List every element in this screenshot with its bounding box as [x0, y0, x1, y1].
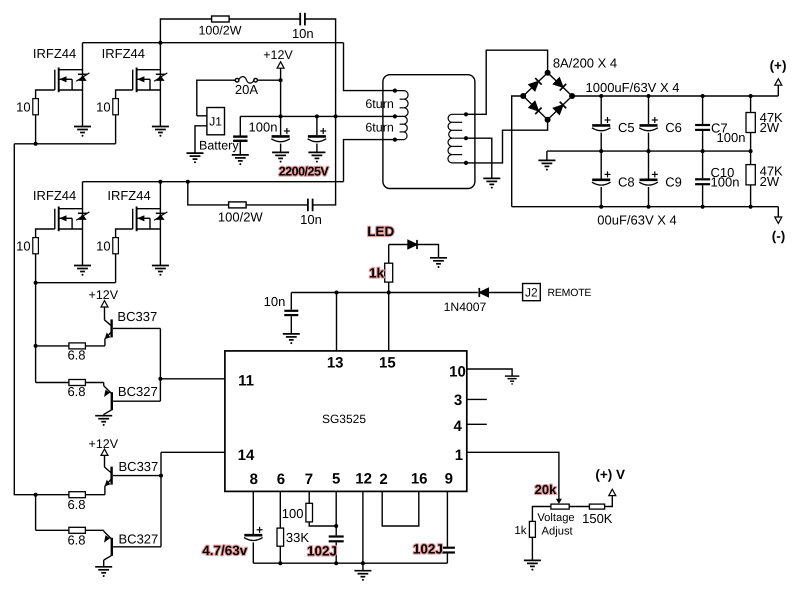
node mid rail C5 — [599, 149, 603, 153]
wire C8 top stem — [600, 151, 602, 178]
node gate rail row1 — [34, 142, 38, 146]
wire bottom ground rail — [253, 562, 447, 564]
wire secondary bottom to bridge AC2 — [466, 122, 548, 162]
resistor 6.8 a — [69, 343, 86, 349]
wire negative output rail — [512, 206, 779, 208]
node row2 gate rail — [34, 281, 38, 285]
svg-text:LED: LED — [367, 224, 394, 239]
wire R1 bottom to gate rail — [35, 115, 37, 144]
wire pin12 stem to ground — [362, 491, 364, 570]
capacitor 102J no1 — [329, 537, 344, 542]
wire pair1 base bus — [159, 328, 161, 401]
wire row2 gate rail down to pair1 drive — [35, 283, 37, 346]
resistor 1k LED — [385, 263, 393, 282]
wire 102J no1 bottom stem — [335, 542, 337, 563]
ground LED — [430, 258, 447, 268]
node mid rail C7 — [701, 149, 705, 153]
svg-text:7: 7 — [305, 471, 313, 488]
svg-text:(+): (+) — [770, 58, 787, 73]
resistor 100/2W lower — [229, 202, 247, 208]
wire C5 bottom stem — [600, 133, 602, 152]
svg-text:33K: 33K — [286, 530, 309, 545]
wire mosfet Q1 drain-source vertical — [82, 43, 84, 127]
capacitor C elco 2200/25V no1 — [271, 128, 290, 142]
wire Q3 gate — [36, 229, 55, 238]
diode bridge D2 top-right — [553, 78, 566, 91]
capacitor C7 100n — [695, 125, 710, 130]
wire 150K to plus V arrow — [605, 496, 613, 507]
capacitor 4.7/63v elco — [244, 527, 263, 541]
svg-text:8: 8 — [250, 471, 258, 488]
wire 4.7 cap bottom stem — [252, 542, 254, 563]
node Vcc rail pin15 — [387, 291, 391, 295]
node Vcc rail pin13 — [335, 291, 339, 295]
node row1 rail junction — [158, 41, 162, 45]
wire 1k top stem — [388, 245, 390, 264]
node bottom rail pin12 — [361, 561, 365, 565]
wire pin15 riser — [388, 293, 390, 351]
wire secondary center tap to ground — [466, 138, 492, 178]
power output minus arrow — [775, 217, 782, 223]
resistor R4 10 gate Q4 — [113, 238, 119, 254]
svg-text:1: 1 — [455, 447, 463, 464]
svg-text:15: 15 — [379, 354, 396, 371]
svg-text:10: 10 — [16, 99, 30, 114]
wire rail to transformer bottom tap — [344, 140, 395, 182]
wire pair2 emitter tie — [35, 495, 37, 531]
wire LED anode horizontal — [389, 244, 408, 246]
ground under Q3 — [74, 266, 91, 276]
wire R4 bottom to row2 gate rail — [115, 254, 117, 283]
wire 100n cap stem — [239, 116, 241, 135]
wire fuse left segment — [197, 80, 236, 116]
svg-text:4.7/63v: 4.7/63v — [202, 543, 248, 558]
svg-text:C6: C6 — [665, 120, 682, 135]
svg-text:20k: 20k — [535, 482, 557, 497]
svg-text:(-): (-) — [772, 229, 786, 244]
svg-text:102J: 102J — [413, 542, 443, 557]
wire bridge diamond edges — [523, 73, 572, 120]
ground under elco2 — [308, 152, 325, 162]
transistor Q4 IRFZ44 row2 right — [133, 207, 168, 232]
svg-text:100/2W: 100/2W — [198, 23, 241, 37]
ground under Q4 — [152, 266, 169, 276]
op-amp U1 SG3525 box — [225, 351, 467, 492]
svg-text:+12V: +12V — [263, 48, 293, 62]
wire fuse right segment — [257, 79, 280, 81]
wire 102J no2 bottom stem — [446, 554, 448, 564]
capacitor 102J no2 — [440, 548, 455, 553]
svg-text:2W: 2W — [760, 120, 780, 135]
wire mosfet Q2 drain-source vertical — [159, 43, 161, 127]
wire C10 top stem — [702, 151, 704, 178]
wire C10 bottom stem — [702, 185, 704, 206]
node bridge right — [569, 93, 575, 99]
node top rail C5 — [599, 94, 603, 98]
node drive pair1 — [34, 344, 38, 348]
wire positive arrow stem — [777, 85, 779, 96]
ground voltage adjust — [524, 560, 541, 570]
svg-text:J2: J2 — [525, 286, 538, 300]
wire row1 gate rail — [14, 143, 115, 145]
svg-text:100n: 100n — [711, 174, 740, 189]
node bottom rail C9 — [647, 205, 651, 209]
svg-text:IRFZ44: IRFZ44 — [102, 46, 145, 61]
svg-text:2W: 2W — [760, 174, 780, 189]
svg-text:10: 10 — [449, 364, 466, 381]
resistor R1 10 gate Q1 — [33, 99, 39, 115]
svg-text:10n: 10n — [300, 212, 322, 227]
wire secondary top to bridge AC1 — [466, 50, 548, 114]
node secondary center tap — [464, 136, 468, 140]
wire C6 top stem — [648, 96, 650, 124]
wire C8 bottom stem — [600, 187, 602, 207]
wire 6.8d right — [85, 529, 103, 531]
resistor 47K 2W upper — [746, 113, 755, 133]
wire 100 bottom to pin5 line — [309, 522, 336, 526]
node bottom rail 102J — [334, 561, 338, 565]
svg-text:10: 10 — [96, 238, 110, 253]
svg-text:5: 5 — [332, 471, 340, 488]
wire row1 drain rail — [83, 42, 344, 44]
capacitor 10n Vcc — [284, 311, 298, 315]
svg-text:(+) V: (+) V — [595, 467, 625, 482]
svg-text:6.8: 6.8 — [67, 348, 85, 363]
diode bridge D3 left-bottom — [529, 101, 542, 114]
wire BC327b emitter stem — [103, 530, 105, 531]
power +12V arrow pair1 — [101, 301, 108, 307]
ground under Q2 — [152, 127, 169, 137]
svg-text:100: 100 — [282, 506, 304, 521]
node bridge top — [545, 70, 551, 76]
resistor 6.8 d — [69, 527, 86, 533]
wire elco2 bottom stem — [316, 144, 318, 153]
svg-text:16: 16 — [411, 471, 428, 488]
transformer T1 primary winding coils — [395, 91, 408, 140]
wire 47K upper bottom stem — [750, 133, 752, 152]
svg-text:10n: 10n — [292, 26, 314, 41]
node row2 rail at snubber2 — [186, 180, 190, 184]
svg-text:10n: 10n — [264, 294, 286, 309]
node cap rail at elco2 — [315, 114, 319, 118]
svg-text:IRFZ44: IRFZ44 — [33, 188, 76, 203]
svg-text:100n: 100n — [249, 119, 278, 134]
capacitor C9 — [639, 171, 658, 185]
wire 1k bottom stem — [388, 282, 390, 292]
wire positive output rail — [572, 95, 778, 97]
resistor 1k voltage adjust — [529, 521, 535, 537]
wire C6 bottom stem — [648, 133, 650, 152]
svg-text:6: 6 — [277, 471, 285, 488]
svg-text:6.8: 6.8 — [67, 533, 85, 548]
wire pair2 base bus — [160, 452, 162, 547]
resistor R2 10 gate Q2 — [113, 99, 119, 115]
wire R3 bottom to row2 gate rail — [35, 254, 37, 283]
fuse F1 20A — [235, 77, 257, 84]
ground BC327b — [95, 567, 112, 577]
node mid rail 47K — [749, 149, 753, 153]
capacitor C6 — [639, 117, 658, 131]
node top rail C7 — [701, 94, 705, 98]
capacitor 100n battery — [233, 137, 247, 141]
svg-text:1N4007: 1N4007 — [444, 300, 487, 314]
svg-text:C8: C8 — [618, 174, 635, 189]
wire +12V capacitor rail — [240, 115, 395, 117]
wire BC327a base to bus — [113, 400, 160, 402]
resistor 33K — [277, 528, 284, 546]
ground pin12 — [354, 571, 371, 581]
svg-text:11: 11 — [238, 373, 254, 390]
wire pot right to 150K — [569, 506, 589, 508]
node cap rail at 12V riser — [334, 114, 338, 118]
svg-text:1k: 1k — [369, 266, 385, 281]
node bridge bottom — [545, 117, 551, 123]
wire bridge negative down leg — [512, 96, 524, 207]
svg-text:13: 13 — [327, 354, 344, 371]
connector J2 box — [523, 284, 541, 301]
wire snubber2 right leg up to +12V rail — [313, 116, 336, 204]
ground under 10n3 — [283, 334, 300, 344]
capacitor 10n upper snubber — [300, 13, 305, 26]
svg-text:150K: 150K — [582, 511, 613, 526]
wire 6.8b left — [36, 382, 69, 384]
transistor Q2 IRFZ44 row1 right — [133, 68, 168, 93]
transistor BC327 pair1 — [104, 386, 112, 415]
ground under elco1 — [272, 152, 289, 162]
svg-text:J1: J1 — [209, 115, 222, 129]
transistor Q1 IRFZ44 row1 left — [55, 68, 90, 93]
wire middle 0V rail — [547, 150, 751, 152]
node bottom rail C8 — [599, 205, 603, 209]
wire mid rail ground stem — [546, 151, 548, 160]
wire Q1 gate — [36, 90, 55, 99]
wire row2 drain rail — [83, 181, 344, 183]
node top rail 47K — [749, 94, 753, 98]
power +12V arrow pair2 — [101, 449, 108, 455]
svg-text:Voltage: Voltage — [537, 512, 574, 524]
wire pins 2-16 jumper — [382, 491, 419, 526]
wire 6.8d left — [36, 529, 69, 531]
ground under J1 — [187, 153, 204, 163]
svg-text:9: 9 — [445, 471, 453, 488]
svg-text:00uF/63V X 4: 00uF/63V X 4 — [597, 213, 677, 228]
wire row2 gate rail — [36, 282, 116, 284]
svg-text:8A/200 X 4: 8A/200 X 4 — [553, 56, 617, 71]
svg-text:2200/25V: 2200/25V — [279, 164, 330, 178]
wire BC337a collector stem — [104, 307, 106, 320]
svg-text:C9: C9 — [665, 174, 682, 189]
wire R2 bottom to gate rail — [115, 115, 117, 144]
node top rail C6 — [647, 94, 651, 98]
wire BC327b collector stem — [103, 560, 105, 567]
node pair2 base bus pin14 — [159, 474, 163, 478]
diode LED — [408, 240, 417, 249]
node primary top tap — [393, 89, 397, 93]
node +12V fuse junction — [279, 78, 283, 82]
wire LED cathode to ground — [418, 245, 439, 258]
wire mosfet Q3 drain-source vertical — [82, 182, 84, 266]
node primary bottom tap — [393, 138, 397, 142]
ground under Q1 — [74, 127, 91, 137]
svg-text:12: 12 — [355, 471, 372, 488]
resistor 6.8 c — [69, 492, 86, 498]
ground under 100n — [232, 155, 249, 165]
wire pin8 stem — [252, 491, 254, 534]
potentiometer 20k wiper arrow — [556, 499, 562, 504]
svg-text:1000uF/63V X 4: 1000uF/63V X 4 — [586, 80, 680, 95]
svg-text:6.8: 6.8 — [67, 497, 85, 512]
diode bridge D4 bottom-right — [553, 102, 566, 115]
wire 6.8b right — [85, 382, 103, 384]
wire 6.8c right — [85, 494, 105, 496]
ground mid rail — [538, 160, 555, 170]
wire Q2 gate — [116, 90, 133, 99]
transformer T1 secondary winding coils — [448, 114, 466, 163]
diode bridge D1 left-top — [529, 78, 542, 91]
svg-text:IRFZ44: IRFZ44 — [107, 188, 150, 203]
svg-text:BC327: BC327 — [118, 384, 158, 399]
svg-text:+12V: +12V — [89, 437, 119, 451]
node mid rail C6 — [647, 149, 651, 153]
node drive pair2 — [34, 493, 38, 497]
capacitor C elco 2200/25V no2 — [308, 128, 327, 142]
wire pin1 to pot wiper — [467, 452, 559, 499]
svg-text:2: 2 — [379, 471, 387, 488]
wire rail to transformer top tap — [344, 43, 395, 91]
wire BC327b base to bus — [113, 546, 161, 548]
wire snubber2 left leg — [188, 182, 308, 205]
wire 6.8a right — [85, 345, 105, 347]
svg-text:10: 10 — [16, 238, 30, 253]
resistor 6.8 b — [69, 380, 86, 386]
svg-text:IRFZ44: IRFZ44 — [33, 46, 76, 61]
capacitor C8 — [592, 171, 611, 185]
svg-text:6turn: 6turn — [365, 97, 394, 111]
svg-text:Adjust: Adjust — [542, 525, 574, 537]
resistor 100 — [306, 503, 313, 522]
wire pin13 riser — [336, 293, 338, 351]
wire C5 top stem — [600, 96, 602, 124]
transistor BC337 pair2 — [104, 467, 111, 487]
wire pin7 stem — [308, 491, 310, 503]
diode 1N4007 — [479, 288, 488, 297]
wire elco2 top stem — [316, 116, 318, 135]
wire +12V arrow stem down to cap rail — [280, 68, 282, 116]
svg-text:BC337: BC337 — [119, 459, 159, 474]
wire BC337b emitter stem — [104, 486, 106, 495]
node bottom rail C10 — [701, 205, 705, 209]
resistor 100/2W upper — [212, 16, 230, 22]
svg-text:20A: 20A — [235, 82, 258, 97]
svg-text:REMOTE: REMOTE — [548, 287, 592, 299]
wire Q4 gate — [116, 229, 133, 238]
node bottom rail 33K — [278, 561, 282, 565]
wire elco1 bottom stem — [280, 144, 282, 153]
ground pin10 — [505, 376, 519, 385]
svg-text:100/2W: 100/2W — [218, 209, 264, 224]
wire BC337a base to bus — [113, 327, 160, 329]
svg-text:SG3525: SG3525 — [322, 412, 366, 426]
wire row1 snubber top loop right segment — [305, 19, 336, 116]
wire pair1 emitter tie — [35, 346, 37, 383]
wire pin5 stem — [335, 491, 337, 535]
wire C7 top stem — [702, 96, 704, 124]
transistor BC337 pair1 — [104, 319, 111, 339]
svg-text:Battery: Battery — [199, 138, 239, 152]
wire 6.8a left — [36, 345, 69, 347]
node primary center tap — [393, 114, 397, 118]
wire row1 snubber top loop left segment — [160, 19, 300, 43]
wire pin14 — [161, 451, 225, 453]
svg-text:1k: 1k — [514, 525, 526, 537]
capacitor C10 100n — [695, 179, 710, 184]
capacitor C5 — [592, 117, 611, 131]
wire 47K lower top stem — [750, 151, 752, 165]
wire pin10 to ground — [467, 369, 512, 376]
wire 100n to ground — [239, 142, 241, 155]
wire BC337a emitter stem — [104, 339, 106, 346]
svg-text:3: 3 — [454, 392, 462, 409]
transformer T1 body — [383, 75, 475, 189]
ground secondary center tap — [483, 178, 500, 188]
node secondary bottom tap — [464, 161, 468, 165]
wire pin9 stem — [446, 491, 448, 546]
svg-text:C5: C5 — [618, 120, 635, 135]
node bridge left — [520, 93, 526, 99]
wire elco1 top stem — [280, 116, 282, 135]
resistor 150K — [589, 504, 604, 509]
wire BC327a collector stem — [103, 415, 105, 416]
resistor R3 10 gate Q3 — [33, 238, 39, 254]
svg-text:102J: 102J — [307, 543, 337, 558]
wire C9 bottom stem — [648, 187, 650, 207]
wire BC337b base to bus — [113, 475, 161, 477]
connector J1 box — [207, 108, 225, 135]
wire J1 top pin — [197, 115, 207, 117]
node pin5 line — [334, 524, 338, 528]
svg-text:10: 10 — [96, 99, 110, 114]
wire J1 bottom pin to ground — [195, 126, 207, 153]
power output plus arrow — [775, 79, 782, 85]
wire mosfet Q4 drain-source vertical — [159, 182, 161, 266]
wire pin11 — [160, 378, 225, 380]
svg-text:4: 4 — [454, 418, 463, 435]
wire 1N4007 to J2 — [489, 292, 523, 294]
wire left bus down to pair2 drive — [14, 144, 35, 495]
svg-text:+12V: +12V — [89, 288, 119, 302]
wire BC337b collector stem — [104, 455, 106, 467]
wire BC327a emitter stem — [103, 383, 105, 386]
wire negative arrow stem — [777, 207, 779, 217]
node pair1 base bus pin11 — [158, 377, 162, 381]
svg-text:6.8: 6.8 — [67, 384, 85, 399]
node secondary top tap — [464, 112, 468, 116]
wire 10n3 stem — [290, 293, 292, 310]
ground BC327a — [95, 416, 112, 426]
wire 33K bottom stem — [279, 546, 281, 563]
wire 10n3 ground stem — [290, 316, 292, 334]
wire C9 top stem — [648, 151, 650, 178]
svg-text:6turn: 6turn — [365, 120, 394, 134]
node bottom rail 47K — [749, 205, 753, 209]
power +12V arrow battery — [277, 62, 284, 68]
svg-text:100n: 100n — [717, 130, 746, 145]
wire pin4 stub — [467, 423, 487, 425]
svg-text:BC337: BC337 — [117, 309, 157, 324]
power plus V arrow — [609, 489, 616, 495]
wire pin6 stem — [279, 491, 281, 528]
potentiometer 20k body — [551, 504, 569, 509]
